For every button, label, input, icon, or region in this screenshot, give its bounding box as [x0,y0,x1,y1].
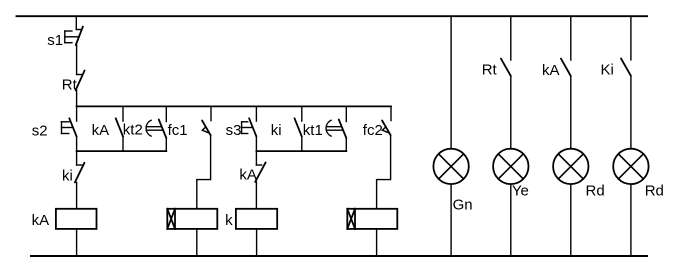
svg-text:Rt: Rt [482,62,498,79]
svg-text:ki: ki [271,122,282,139]
lamp Gn [433,149,468,184]
wire [122,106,124,121]
svg-text:s1: s1 [47,32,63,49]
svg-text:fc1: fc1 [168,122,188,139]
solenoid coil (valve) [167,209,217,229]
wire [630,76,632,149]
lamp Ye [493,149,528,184]
wire [376,229,378,256]
wire [390,106,392,120]
svg-text:kA: kA [32,212,50,229]
wire [345,106,347,121]
wire [76,90,78,106]
mid rail [77,105,391,107]
wire [76,229,78,256]
svg-text:Rd: Rd [645,183,664,200]
svg-text:kA: kA [542,62,560,79]
wire [210,106,212,120]
wire [76,137,78,166]
wire [197,135,211,209]
contact ki (NC) [75,163,85,183]
wire [76,45,78,75]
svg-text:kA: kA [239,167,257,184]
contact kt2 (delayed NO) [146,120,166,139]
wire [570,16,572,60]
wire [301,137,303,152]
svg-text:Ye: Ye [512,182,529,199]
contact kA (NC interlock) [255,162,265,182]
pushbutton s3 (NO) [242,118,257,136]
contact Rt (NC thermal) [76,71,85,91]
wire [377,135,391,209]
wire [510,16,512,60]
svg-text:s3: s3 [226,122,242,139]
svg-text:ki: ki [62,167,73,184]
pushbutton s2 (NO) [62,118,77,136]
solenoid coil (valve) [347,209,397,229]
svg-text:Rt: Rt [62,77,78,94]
svg-text:fc2: fc2 [363,122,383,139]
lamp Rd [553,149,588,184]
svg-text:kt1: kt1 [303,122,323,139]
contact ki (NO) [295,118,302,136]
svg-text:k: k [225,212,233,229]
contact Ki (NO) [621,59,631,76]
wire [122,137,124,152]
pushbutton s1 (NC) [65,27,83,45]
wire [345,138,347,151]
wire [510,76,512,149]
limit switch fc1 (NO) [202,121,211,136]
wire [255,106,257,121]
wire [256,229,258,256]
wire [450,184,452,256]
top supply rail [17,15,648,17]
group1 bottom wire [77,150,167,152]
bottom supply rail [31,255,647,257]
wire [510,184,512,256]
wire [75,16,77,29]
wire [570,76,572,149]
svg-text:Ki: Ki [601,61,614,78]
svg-text:Rd: Rd [586,183,605,200]
svg-text:kt2: kt2 [123,122,143,139]
wire [165,106,167,121]
svg-text:Gn: Gn [453,197,473,214]
svg-text:kA: kA [92,122,110,139]
svg-text:s2: s2 [32,122,48,139]
wire [255,182,257,209]
contact kA (NO self-hold) [116,118,123,136]
wire [301,106,303,121]
wire [255,137,257,166]
wire [76,106,78,121]
contact kt1 (delayed NO) [326,120,346,139]
contact kA (NO) [561,59,571,76]
wire [196,229,198,256]
group2 bottom wire [256,150,346,152]
lamp Rd2 [613,149,648,184]
contact Rt (NO) [501,59,511,76]
wire [76,182,78,208]
wire [630,16,632,60]
wire [630,184,632,256]
wire [165,138,167,151]
coil k [236,209,277,229]
wire [450,16,452,149]
limit switch fc2 (NO) [382,121,391,136]
wire [570,184,572,256]
coil kA [56,209,97,229]
